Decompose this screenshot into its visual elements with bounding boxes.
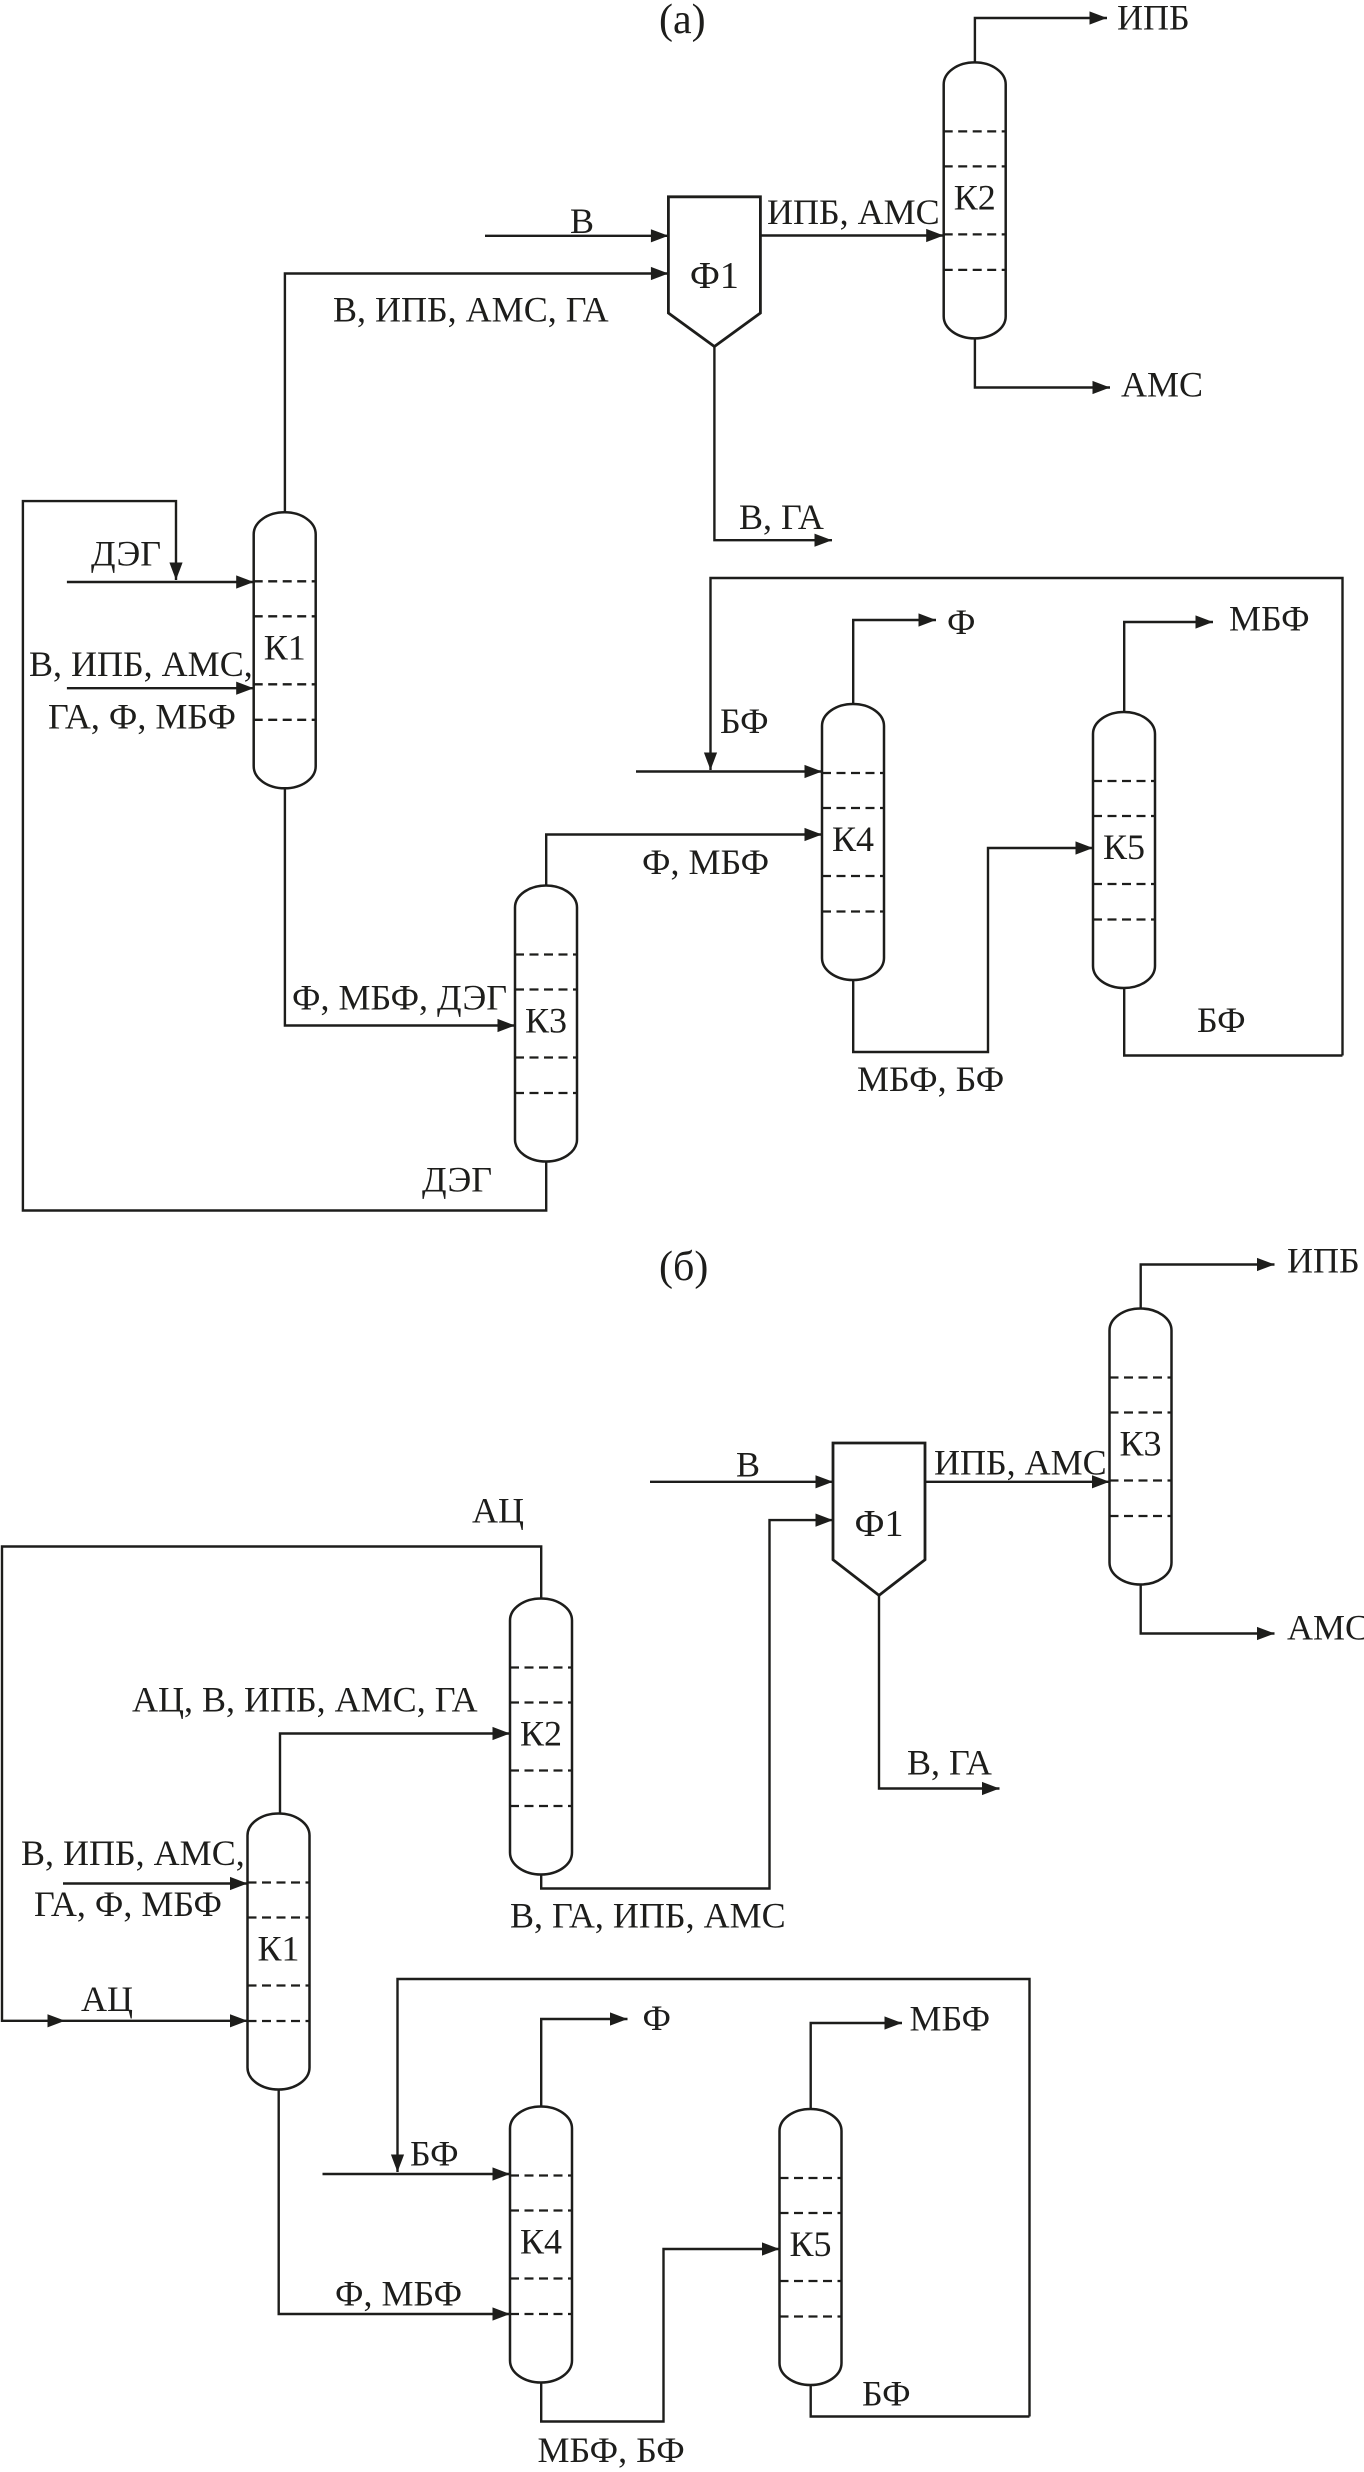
arrowhead B into F1a	[651, 229, 669, 242]
svg-text:АЦ: АЦ	[81, 1979, 133, 2019]
wire F1a vapor to K2a	[760, 234, 943, 236]
svg-text:К5: К5	[1103, 827, 1145, 867]
column K3b shell	[1110, 1309, 1172, 1585]
wire main feed to K1b	[63, 1882, 248, 1884]
svg-text:К3: К3	[1119, 1424, 1161, 1464]
wire K1a overhead to F1a	[285, 274, 669, 515]
svg-text:К3: К3	[525, 1001, 567, 1041]
arrowhead IPB product (b)	[1257, 1258, 1275, 1271]
svg-text:Ф: Ф	[947, 602, 975, 642]
svg-text:Ф1: Ф1	[854, 1503, 903, 1545]
svg-text:В, ИПБ, АМС,: В, ИПБ, АМС,	[21, 1833, 245, 1873]
svg-text:ИПБ: ИПБ	[1287, 1241, 1360, 1281]
svg-text:МБФ: МБФ	[910, 1999, 991, 2039]
arrowhead V,GA product (a)	[815, 534, 833, 547]
column K2b shell	[510, 1599, 572, 1875]
arrowhead BF into K4b	[493, 2167, 511, 2180]
svg-text:АМС: АМС	[1121, 365, 1203, 405]
wire B feed to F1a	[485, 235, 668, 237]
arrowhead MBF product (a)	[1196, 615, 1214, 628]
wire K5a bottoms BF	[1124, 986, 1342, 1056]
svg-text:К2: К2	[520, 1714, 562, 1754]
svg-text:В: В	[736, 1445, 760, 1485]
svg-text:ГА, Ф, МБФ: ГА, Ф, МБФ	[34, 1884, 222, 1924]
column K5a shell	[1093, 712, 1155, 988]
svg-text:В, ИПБ, АМС, ГА: В, ИПБ, АМС, ГА	[333, 290, 609, 330]
separator F1b vessel	[833, 1443, 925, 1595]
svg-text:К5: К5	[789, 2224, 831, 2264]
wire K5b bottoms BF	[811, 2384, 1030, 2417]
arrowhead B into F1b	[816, 1475, 834, 1488]
svg-text:Ф1: Ф1	[690, 255, 739, 297]
wire K3b overhead IPB	[1141, 1265, 1275, 1311]
svg-text:ДЭГ: ДЭГ	[422, 1160, 492, 1200]
arrowhead DEG into K1a	[236, 575, 254, 588]
wire K1b bottoms to K4b	[279, 2087, 510, 2314]
svg-text:МБФ: МБФ	[1229, 599, 1310, 639]
svg-text:Ф: Ф	[643, 1998, 671, 2038]
svg-text:МБФ, БФ: МБФ, БФ	[857, 1059, 1004, 1099]
svg-text:ИПБ, АМС: ИПБ, АМС	[767, 192, 940, 232]
arrowhead F product (a)	[919, 613, 937, 626]
arrowhead AMS product (b)	[1257, 1627, 1275, 1640]
wire DEG feed to K1a	[67, 581, 254, 583]
wire K2b feed	[280, 1734, 510, 1814]
wire B feed to F1b	[650, 1481, 833, 1483]
wire K4b overhead F	[541, 2019, 627, 2108]
column K4a shell	[822, 704, 884, 980]
svg-text:АЦ, В, ИПБ, АМС, ГА: АЦ, В, ИПБ, АМС, ГА	[132, 1680, 478, 1720]
svg-text:К4: К4	[520, 2222, 562, 2262]
wire K2b overhead to F1b	[541, 1520, 833, 1888]
wire BF recycle box (b)	[398, 1979, 1030, 2417]
svg-text:В: В	[570, 201, 594, 241]
wire K3b bottoms AMS	[1141, 1583, 1275, 1634]
column K1a shell	[254, 512, 316, 788]
column K3a trays (dashed)	[515, 955, 577, 1094]
svg-text:БФ: БФ	[410, 2134, 459, 2174]
svg-text:БФ: БФ	[862, 2374, 911, 2414]
arrowhead MBF product (b)	[885, 2016, 903, 2029]
arrowhead V,GA product (b)	[982, 1782, 1000, 1795]
arrowhead BF into K4a	[805, 765, 823, 778]
svg-text:Ф, МБФ: Ф, МБФ	[642, 842, 769, 882]
column K3a shell	[515, 886, 577, 1162]
arrowhead IPB,AMS into K3b	[1092, 1475, 1110, 1488]
wire F1a bottoms V,GA	[714, 345, 832, 540]
svg-text:(б): (б)	[659, 1244, 708, 1290]
svg-text:Ф, МБФ: Ф, МБФ	[335, 2274, 462, 2314]
separator F1a vessel	[668, 197, 760, 347]
arrowhead AC mid arrow	[48, 2014, 66, 2027]
arrowhead F,MBF into K4b	[493, 2307, 511, 2320]
svg-text:К1: К1	[257, 1929, 299, 1969]
wire K3a overhead to K4a	[546, 835, 822, 888]
arrowhead MBF,BF into K5b	[762, 2242, 780, 2255]
svg-text:БФ: БФ	[720, 701, 769, 741]
wire K4a overhead F	[853, 620, 936, 706]
wire K4b bottoms to K5b	[541, 2249, 779, 2422]
wire K1a bottoms to K3a	[285, 786, 515, 1026]
arrowhead feed into K1b	[230, 1877, 248, 1890]
svg-text:АЦ: АЦ	[472, 1491, 524, 1531]
wire K2a overhead IPB	[975, 18, 1107, 64]
arrowhead BF recycle down (b)	[391, 2155, 404, 2173]
column K2a shell	[944, 62, 1006, 338]
column K4b shell	[510, 2107, 572, 2383]
column K4a trays (dashed)	[822, 773, 884, 912]
column K3b trays (dashed)	[1110, 1378, 1172, 1517]
wire K5a overhead MBF	[1124, 622, 1213, 714]
svg-text:БФ: БФ	[1197, 1000, 1246, 1040]
wire main feed to K1a	[67, 687, 254, 689]
wire F1b vapor to K3b	[925, 1481, 1110, 1483]
arrowhead DEG recycle down	[169, 563, 182, 581]
svg-text:ГА, Ф, МБФ: ГА, Ф, МБФ	[48, 697, 236, 737]
svg-text:К2: К2	[954, 177, 996, 217]
svg-text:К4: К4	[832, 819, 874, 859]
column K2b trays (dashed)	[510, 1668, 572, 1807]
svg-text:В, ГА: В, ГА	[739, 497, 824, 537]
svg-text:АМС: АМС	[1287, 1608, 1364, 1648]
arrowhead AC into K1b	[230, 2014, 248, 2027]
svg-text:МБФ, БФ: МБФ, БФ	[538, 2430, 685, 2470]
svg-text:ИПБ, АМС: ИПБ, АМС	[934, 1443, 1107, 1483]
arrowhead feed into K1a	[236, 682, 254, 695]
wire BF feed to K4b	[323, 2173, 511, 2175]
column K4b trays (dashed)	[510, 2176, 572, 2315]
wire K2a bottoms AMS	[975, 337, 1110, 388]
column K1b shell	[248, 1814, 310, 2090]
svg-text:К1: К1	[264, 627, 306, 667]
column K5b shell	[780, 2109, 842, 2385]
svg-text:(а): (а)	[659, 0, 706, 43]
arrowhead V,IPB,AMS,GA into F1a	[651, 267, 669, 280]
column K5b trays (dashed)	[780, 2178, 842, 2317]
arrowhead F,MBF,DEG into K3a	[498, 1019, 516, 1032]
wire BF feed to K4a	[636, 770, 822, 772]
arrowhead recycle into F1b	[816, 1514, 834, 1527]
column K2a trays (dashed)	[944, 131, 1006, 270]
wire K4a bottoms to K5a	[853, 848, 1093, 1052]
column K1b trays (dashed)	[248, 1883, 310, 2022]
svg-text:ДЭГ: ДЭГ	[91, 534, 161, 574]
arrowhead MBF,BF into K5a	[1076, 841, 1094, 854]
svg-text:Ф, МБФ, ДЭГ: Ф, МБФ, ДЭГ	[292, 978, 507, 1018]
arrowhead IPB product (a)	[1090, 11, 1108, 24]
wire K5b overhead MBF	[811, 2023, 902, 2110]
arrowhead BF recycle down (a)	[704, 753, 717, 771]
arrowhead F product (b)	[610, 2012, 628, 2025]
svg-text:В, ИПБ, АМС,: В, ИПБ, АМС,	[29, 644, 253, 684]
arrowhead IPB,AMS into K2a	[926, 229, 944, 242]
column K5a trays (dashed)	[1093, 781, 1155, 920]
wire DEG recycle loop	[23, 501, 546, 1210]
arrowhead AC,V,IPB,AMS,GA into K2b	[493, 1727, 511, 1740]
wire AC recycle loop	[2, 1547, 541, 2021]
wire BF recycle box (a)	[711, 578, 1343, 1056]
svg-text:В, ГА: В, ГА	[907, 1743, 992, 1783]
svg-text:ИПБ: ИПБ	[1117, 0, 1190, 38]
arrowhead F,MBF into K4a	[805, 828, 823, 841]
wire F1b bottoms V,GA	[879, 1594, 1000, 1789]
svg-text:В, ГА, ИПБ, АМС: В, ГА, ИПБ, АМС	[510, 1896, 786, 1936]
arrowhead AMS product (a)	[1093, 381, 1111, 394]
column K1a trays (dashed)	[254, 581, 316, 720]
